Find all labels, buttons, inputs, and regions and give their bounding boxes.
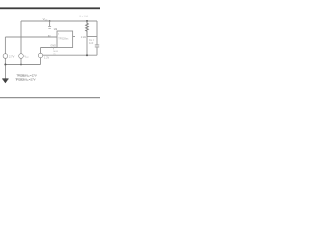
- svg-text:GND: GND: [50, 45, 56, 48]
- node junction dot D: [20, 64, 22, 66]
- capacitor C1 plates: [48, 27, 51, 29]
- wire source V2 lower lead: [20, 58, 22, 64]
- wire gnd-pin horizontal: [41, 47, 58, 49]
- svg-text:1nF: 1nF: [89, 42, 94, 45]
- capacitor CL lower lead: [96, 47, 98, 55]
- wire source3 riser top: [40, 48, 42, 54]
- node junction dot C: [4, 64, 6, 66]
- svg-text:IN: IN: [48, 34, 51, 38]
- capacitor C1 stub (bypass): [49, 21, 51, 26]
- wire bottom rail: [5, 64, 40, 66]
- wire gnd pin tick: [53, 48, 55, 50]
- svg-text:R = 1 kΩ: R = 1 kΩ: [80, 16, 89, 18]
- svg-text:U1: U1: [54, 27, 58, 31]
- svg-text:2.7V: 2.7V: [9, 54, 15, 58]
- svg-text:1 kΩ: 1 kΩ: [81, 36, 86, 39]
- voltage source V3 (pulse gen): [38, 53, 42, 57]
- voltage source V2 (VCC): [19, 54, 24, 59]
- resistor R1: [86, 21, 89, 37]
- svg-text:TPS2828: VCC = 2.7 V: TPS2828: VCC = 2.7 V: [15, 77, 35, 81]
- wire ground line (right): [43, 54, 97, 56]
- wire VCC rail top: [21, 20, 97, 22]
- wire output node horizontal: [87, 36, 97, 38]
- op-amp U1 pin stub output: [73, 36, 75, 38]
- svg-text:1.2V: 1.2V: [44, 56, 49, 59]
- node junction dot B: [86, 54, 88, 56]
- top rule (thick separator line): [0, 7, 100, 9]
- wire source V3 lower lead: [40, 58, 42, 65]
- wire ground drop: [4, 65, 6, 79]
- node junction dot A: [86, 20, 88, 22]
- wire right drop from rail: [96, 21, 98, 45]
- ground: [2, 78, 8, 80]
- capacitor CL plates: [95, 45, 99, 47]
- wire input horizontal: [5, 36, 57, 38]
- wire source V1 lower lead: [4, 58, 6, 64]
- svg-text:TPS28xx: TPS28xx: [58, 38, 69, 41]
- background: [0, 0, 100, 100]
- wire output drop: [86, 37, 88, 56]
- node junction dot E: [49, 20, 51, 22]
- wire input riser: [4, 37, 6, 54]
- op-amp U1 DUT box: [57, 31, 73, 48]
- bottom rule: [0, 97, 100, 98]
- voltage source V1 (input pulse): [3, 54, 8, 59]
- wire VCC source riser: [20, 21, 22, 54]
